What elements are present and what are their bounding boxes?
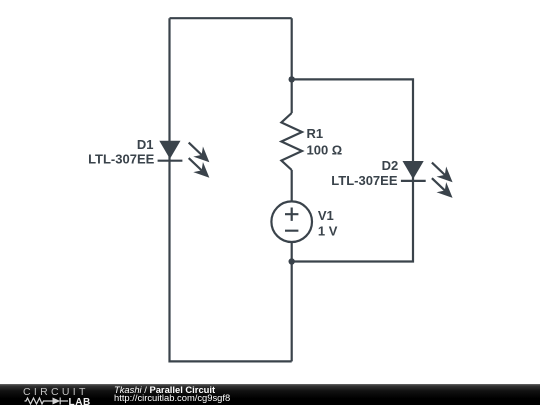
svg-text:LTL-307EE: LTL-307EE [331, 173, 398, 188]
svg-text:LAB: LAB [69, 397, 91, 405]
svg-text:V1: V1 [318, 208, 334, 223]
svg-text:LTL-307EE: LTL-307EE [88, 152, 155, 167]
svg-text:D2: D2 [382, 158, 399, 173]
svg-text:1 V: 1 V [318, 224, 338, 239]
svg-text:R1: R1 [307, 126, 324, 141]
svg-text:D1: D1 [137, 137, 154, 152]
svg-text:100 Ω: 100 Ω [307, 143, 343, 158]
